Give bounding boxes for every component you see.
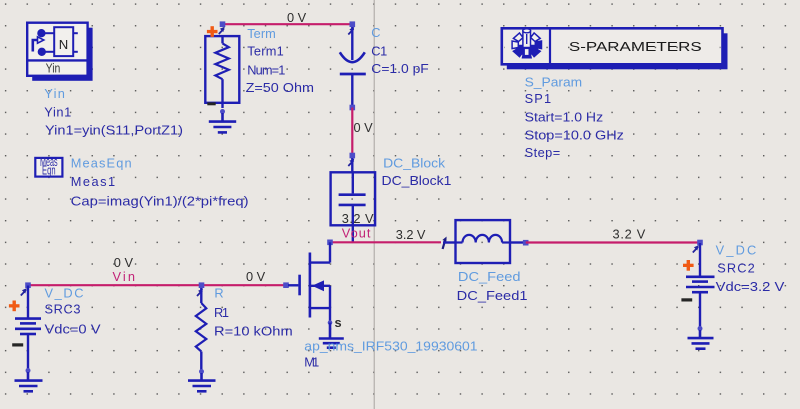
node at C1 top (350, 21, 356, 27)
pin arrow term (219, 27, 225, 34)
svg-text:Z=50 Ohm: Z=50 Ohm (246, 80, 314, 95)
svg-text:0 V: 0 V (114, 255, 134, 270)
page boundary line (373, 0, 375, 409)
svg-text:3.2 V: 3.2 V (396, 227, 426, 242)
node SRC3 top (25, 282, 31, 288)
ground (term) (209, 113, 236, 132)
svg-text:R: R (214, 286, 223, 301)
term bottom node (220, 109, 225, 114)
S-PARAMETERS controller (502, 28, 728, 69)
svg-text:3.2 V: 3.2 V (342, 211, 374, 226)
svg-text:C: C (371, 25, 380, 40)
svg-text:0 V: 0 V (246, 269, 266, 284)
node C1 bottom (350, 105, 356, 111)
svg-text:DC_Feed1: DC_Feed1 (457, 288, 528, 303)
DC_Block1 (331, 158, 376, 242)
svg-text:V_DC: V_DC (716, 243, 757, 258)
node gate (283, 282, 289, 288)
SRC2 bottom node (698, 326, 703, 331)
ground (M1) (319, 323, 344, 348)
svg-text:Yin1: Yin1 (44, 104, 71, 119)
pin arrow SRC2 (693, 245, 699, 252)
svg-text:Num=1: Num=1 (247, 62, 285, 77)
svg-text:DC_Block1: DC_Block1 (382, 173, 452, 188)
svg-text:Step=: Step= (525, 145, 561, 160)
M1 arrow (312, 280, 324, 291)
svg-text:Vdc=3.2 V: Vdc=3.2 V (716, 279, 785, 294)
node DC_Block top (350, 153, 356, 159)
resistor R1 (196, 288, 207, 370)
pin arrow DC_Block (348, 159, 354, 166)
ground (R1) (188, 373, 216, 391)
SRC3 minus (12, 343, 23, 346)
svg-text:0 V: 0 V (287, 10, 307, 25)
svg-text:Term1: Term1 (247, 44, 284, 59)
svg-text:N: N (59, 37, 69, 52)
pin arrow C1 (348, 27, 354, 34)
wire C1 to DC_Block (351, 108, 353, 156)
DC_Feed1 (443, 220, 523, 263)
svg-text:Yin1=yin(S11,PortZ1): Yin1=yin(S11,PortZ1) (45, 122, 183, 137)
svg-text:C=1.0 pF: C=1.0 pF (371, 61, 429, 76)
svg-text:0 V: 0 V (354, 120, 374, 135)
svg-text:SRC3: SRC3 (45, 302, 81, 317)
svg-text:Eqn: Eqn (42, 162, 56, 177)
svg-text:S_Param: S_Param (525, 75, 583, 90)
node SRC2 top (697, 240, 703, 246)
svg-text:3.2 V: 3.2 V (613, 227, 646, 242)
svg-text:Yin: Yin (46, 61, 61, 76)
wire term to C1 (223, 23, 353, 25)
term Term1 (205, 36, 239, 108)
svg-text:C1: C1 (371, 43, 387, 58)
node DC_Feed right (523, 240, 529, 246)
ground (SRC2) (688, 330, 714, 349)
svg-text:SRC2: SRC2 (717, 261, 755, 276)
svg-text:DC_Block: DC_Block (383, 155, 446, 170)
pin arrow R1 (197, 289, 203, 296)
capacitor C1 (340, 27, 366, 106)
svg-text:SP1: SP1 (525, 91, 552, 106)
svg-text:Vin: Vin (113, 269, 136, 284)
svg-text:MeasEqn: MeasEqn (71, 155, 132, 170)
svg-text:R1: R1 (214, 305, 229, 320)
pin arrow DC_Feed left (442, 237, 446, 250)
svg-text:Yin: Yin (44, 86, 65, 101)
node R1 top (199, 282, 205, 288)
gear icon (512, 29, 541, 58)
term plus (207, 26, 218, 37)
transistor M1 (288, 242, 330, 322)
V_DC SRC3 (15, 286, 41, 370)
node at term top (220, 21, 226, 27)
node at drain (327, 240, 333, 246)
V_DC SRC2 (686, 243, 715, 327)
svg-text:DC_Feed: DC_Feed (458, 269, 521, 284)
Yin measurement icon (27, 23, 92, 81)
pin arrow SRC3 (21, 288, 27, 295)
svg-text:ap_nms_IRF530_19930601: ap_nms_IRF530_19930601 (304, 339, 477, 354)
R1 bottom node (199, 369, 204, 374)
term minus (207, 102, 215, 105)
wire DC_Feed to SRC2 (526, 241, 700, 243)
svg-text:Cap=imag(Yin1)/(2*pi*freq): Cap=imag(Yin1)/(2*pi*freq) (71, 193, 249, 208)
svg-text:Term: Term (247, 26, 276, 41)
SRC2 plus (683, 260, 694, 271)
svg-text:R=10 kOhm: R=10 kOhm (214, 324, 293, 339)
wire SRC3 to gate (28, 284, 286, 286)
SRC2 minus (681, 298, 692, 301)
svg-text:Stop=10.0 GHz: Stop=10.0 GHz (525, 127, 624, 142)
MeasEqn icon (35, 154, 62, 177)
svg-text:Meas1: Meas1 (71, 174, 115, 189)
wire Vout to DC_Feed (330, 241, 441, 243)
svg-text:Vout: Vout (342, 225, 371, 240)
svg-text:Vdc=0 V: Vdc=0 V (45, 322, 102, 337)
svg-text:s: s (335, 315, 342, 330)
svg-text:Start=1.0 Hz: Start=1.0 Hz (525, 110, 604, 125)
M1 source node (328, 320, 333, 325)
svg-text:M1: M1 (304, 355, 319, 370)
SRC3 bottom node (26, 368, 31, 373)
svg-text:S-PARAMETERS: S-PARAMETERS (569, 39, 702, 54)
ground (SRC3) (15, 372, 43, 391)
svg-text:V_DC: V_DC (45, 285, 84, 300)
SRC3 plus (9, 301, 20, 312)
